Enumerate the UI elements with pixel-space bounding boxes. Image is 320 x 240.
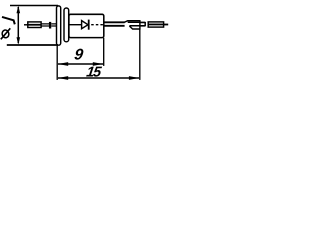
arrowhead 9 left [58,62,68,66]
arrowhead up [17,6,21,14]
wire after right bead [140,22,145,25]
arrowhead down [17,37,21,44]
flange capsule [57,6,61,45]
right lead wire from body [104,22,125,26]
arrowhead 15 right [129,76,139,80]
wire through left bead [28,24,41,26]
diode symbol cathode bar [88,20,90,30]
dimension text 15 [85,65,103,81]
wire end cap [144,22,146,26]
left lead crimp bead [28,22,41,28]
dimension text 9 [73,46,84,63]
extension line right of body [103,38,105,66]
wire through right bead [128,22,140,26]
wire bead to washer [41,24,49,26]
extension line right lead bead [139,29,141,80]
diode symbol triangle [82,21,88,29]
arrowhead 9 right [93,62,103,66]
diameter witness line top [10,5,58,7]
wire through tip bead [148,23,163,25]
tip crimp bead [148,22,163,27]
diode symbol anode line [69,24,82,26]
diameter dimension line phi7 [17,7,19,43]
seal capsule [64,8,69,42]
extension line left [56,45,58,80]
wire washer to flange [51,24,57,26]
left lead tip wire [24,24,28,26]
right crimp bead [124,20,140,30]
dimension line 9 [58,63,103,65]
diode body [69,14,104,37]
dimension line 15 [58,77,139,79]
diode symbol dashed cathode line [91,24,104,26]
washer on left lead [49,22,51,29]
arrowhead 15 left [58,76,68,80]
diameter witness line bottom [7,44,58,46]
right lead end wire [164,24,169,26]
label phi7 [1,17,15,39]
